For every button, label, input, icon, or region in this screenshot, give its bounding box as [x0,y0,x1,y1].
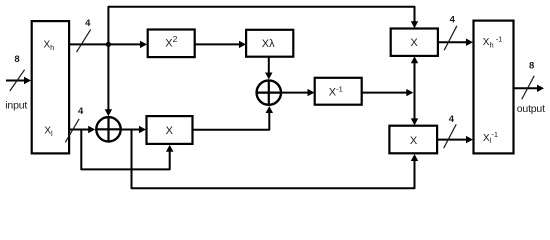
wire: XOR1 output to multiplier U4 [121,126,146,133]
label Xl (pin: low nibble) [44,126,53,138]
block U1: isomorphic mapping (Xh/Xl split) [32,21,69,153]
svg-text:input: input [5,100,27,112]
svg-text:output: output [517,103,545,115]
svg-text:4: 4 [449,114,455,125]
wire: XOR2 to inverter X^-1 [281,89,314,96]
wire: X^-1 output to node B [362,89,414,96]
value label 4 (U5 output bus) [450,14,456,25]
block U8: inverse isomorphic mapping (Xh^-1 / Xl^-1) [474,21,514,154]
bus-width slash: U5 output [444,26,457,50]
svg-text:4: 4 [450,14,456,25]
value label 4 (U6 output bus) [449,114,455,125]
svg-text:X: X [410,37,418,49]
wire: top feedback Xh to multiplier U5 (up, across, down) [108,7,418,45]
adder XOR1 (Xh + Xl) [96,117,120,141]
svg-text:Xλ: Xλ [262,38,275,50]
bus-width slash: output [522,76,535,100]
node C: branch of Xl wire down to U4 bottom input [81,130,173,170]
block: multiplier U6 (bottom-right X) [389,126,437,154]
block: multiplicative inverter X^-1 [315,78,362,105]
wire: Xh from U1 to X^2 block [69,41,147,48]
adder XOR2 (GF add) [257,80,281,104]
wire: U5 output to inverse map (high) [438,39,473,46]
block: multiplier U5 (top X) [391,29,438,56]
node B: vertical branch to both multipliers [411,56,418,125]
value label 8 (output bus width) [529,60,534,71]
label Xh^-1 [483,35,503,50]
wire: U6 output to inverse map (low) [437,136,473,143]
svg-text:X: X [166,125,174,137]
wire: output bus from U8 [514,85,545,92]
svg-text:8: 8 [14,54,19,65]
wire: Xl from U1 into XOR1 [69,126,95,133]
label output [517,103,545,115]
block: squarer X^2 [148,30,195,58]
block: multiplier U4 (bottom-left X) [147,116,193,144]
label Xl^-1 [483,130,498,145]
svg-text:4: 4 [78,106,84,117]
bus-width slash: U6 output [444,124,457,148]
svg-text:8: 8 [529,60,534,71]
wire: X^2 to X-lambda [195,41,246,48]
label Xh (pin: high nibble) [43,40,54,52]
bus-width slash: Xl wire [65,119,79,142]
svg-text:4: 4 [85,18,91,29]
wire: U4 output up into XOR2 bottom [193,106,274,130]
bus-width slash: Xh wire [77,29,91,52]
label input [5,100,27,112]
svg-text:X: X [410,135,418,147]
wire: Xh down from node A into XOR1 [105,44,112,116]
wire: X-lambda down into XOR2 [265,57,272,80]
value label 4 (Xh bus width) [85,18,91,29]
value label 4 (Xl bus width) [78,106,84,117]
node A: junction dot on Xh wire [106,42,111,47]
value label 8 (input bus width) [14,54,19,65]
block: constant multiplier X-lambda [246,30,293,57]
wire: input bus into U1 [6,77,31,84]
node D: branch of XOR1 output down to multiplier U6 bottom input [132,130,419,189]
bus-width slash: input [10,70,25,91]
